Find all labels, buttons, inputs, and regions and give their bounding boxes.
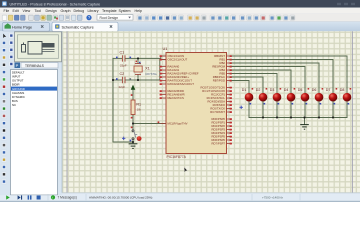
toolbar bbox=[0, 13, 360, 21]
svg-text:TERMINALS: TERMINALS bbox=[25, 64, 45, 68]
sim stop button bbox=[37, 196, 41, 200]
message icon bbox=[51, 195, 55, 199]
menu bar bbox=[0, 8, 360, 14]
svg-text:D3: D3 bbox=[270, 88, 275, 92]
wire RB1 to D7 bbox=[232, 60, 333, 94]
svg-text:D2: D2 bbox=[256, 88, 261, 92]
svg-text:D8: D8 bbox=[340, 88, 345, 92]
svg-text:R1: R1 bbox=[136, 103, 141, 107]
svg-text:Debug: Debug bbox=[74, 9, 85, 13]
ground terminal left bbox=[129, 142, 138, 148]
LED D7 bbox=[326, 88, 338, 105]
wire RB4 to D4 bbox=[232, 70, 291, 93]
wire C2 left lead bbox=[113, 79, 122, 81]
svg-text:System: System bbox=[119, 9, 131, 13]
main background / left panel bbox=[0, 31, 62, 195]
svg-text:Home Page: Home Page bbox=[12, 26, 32, 30]
IC left pin names bbox=[168, 54, 199, 126]
junction node ground left bbox=[132, 141, 134, 143]
IC right pin names bbox=[200, 54, 225, 146]
pin state square button top bbox=[131, 127, 133, 129]
ground terminal right bbox=[300, 125, 309, 130]
wire C1-C2 left vertical down to ground run bbox=[113, 58, 133, 142]
pin state square R1 bottom bbox=[131, 117, 133, 119]
wire C2 node to OSC2 pin bbox=[138, 60, 166, 81]
status bar bbox=[62, 193, 360, 202]
junction node crystal bottom bbox=[137, 79, 139, 81]
svg-text:Template: Template bbox=[102, 9, 117, 13]
LED D1 bbox=[242, 88, 254, 105]
svg-text:C2: C2 bbox=[120, 72, 125, 76]
pin state square button bottom bbox=[130, 140, 132, 142]
svg-text:PIC16F877A: PIC16F877A bbox=[167, 155, 187, 159]
svg-text:NC: NC bbox=[12, 103, 16, 107]
svg-text:D4: D4 bbox=[284, 88, 289, 92]
svg-text:RB7/PGD: RB7/PGD bbox=[213, 79, 225, 83]
LED D6 bbox=[312, 88, 324, 105]
sim step button bbox=[18, 195, 21, 199]
svg-text:File: File bbox=[4, 9, 10, 13]
wire RB5 to D3 bbox=[232, 74, 277, 94]
junction node MCLR branch bbox=[132, 123, 134, 125]
resistor R1 bbox=[131, 100, 142, 115]
wire RB6 to D2 bbox=[232, 77, 263, 93]
svg-text:D1: D1 bbox=[242, 88, 247, 92]
wire C1 node to OSC1 pin bbox=[138, 56, 166, 58]
svg-text:Design: Design bbox=[46, 9, 57, 13]
pin state square MCLR bbox=[158, 121, 160, 123]
wire common cathode rail bbox=[249, 117, 347, 119]
power terminal VCC bbox=[131, 85, 136, 90]
svg-text:X1: X1 bbox=[145, 67, 150, 71]
svg-text:D6: D6 bbox=[312, 88, 317, 92]
IC right pin state squares bbox=[230, 55, 232, 144]
junction node rail D4 bbox=[290, 117, 292, 119]
push button bbox=[132, 130, 142, 141]
svg-text:RD7/PSP7: RD7/PSP7 bbox=[211, 142, 225, 146]
junction node rail D7 bbox=[332, 117, 334, 119]
wire R1 bottom to button top bbox=[132, 115, 134, 131]
mouse cursor bbox=[184, 167, 188, 173]
terminals selector header bbox=[15, 63, 21, 69]
sheet right border bbox=[351, 31, 353, 193]
svg-text:Edit: Edit bbox=[13, 9, 19, 13]
wire cathode D2 bbox=[262, 101, 264, 117]
wire C1 right lead bbox=[125, 57, 138, 59]
capacitor C2 bbox=[116, 72, 131, 89]
svg-text:7 Message(s): 7 Message(s) bbox=[58, 196, 77, 200]
svg-text:U1: U1 bbox=[163, 47, 168, 51]
wire RB3 to D5 bbox=[232, 67, 305, 94]
blue marker near button bbox=[122, 137, 125, 140]
svg-text:View: View bbox=[23, 9, 31, 13]
svg-text:RE2/AN7/CS: RE2/AN7/CS bbox=[168, 96, 184, 100]
wire rail to ground bbox=[304, 118, 306, 125]
wire cathode D7 bbox=[332, 101, 334, 117]
junction node crystal top bbox=[137, 58, 139, 60]
toolbar icons group 2 bbox=[137, 15, 295, 20]
wire power terminal to R1 bbox=[132, 89, 134, 100]
svg-text:Help: Help bbox=[135, 9, 142, 13]
svg-text:22pF: 22pF bbox=[119, 85, 126, 89]
svg-text:MCLR/Vpp/THV: MCLR/Vpp/THV bbox=[168, 122, 188, 126]
wire RB2 to D6 bbox=[232, 63, 319, 93]
wire RB0 to D8 bbox=[232, 56, 347, 93]
IC left pin state squares bbox=[160, 55, 162, 99]
LED D5 bbox=[298, 88, 310, 105]
svg-text:P: P bbox=[16, 63, 19, 68]
svg-text:CRYSTAL: CRYSTAL bbox=[145, 72, 157, 76]
svg-text:UNTITLED - Proteus 8 Professio: UNTITLED - Proteus 8 Professional - Sche… bbox=[10, 3, 101, 7]
svg-text:RC7/RX/DT: RC7/RX/DT bbox=[210, 110, 225, 114]
left mode toolbar icons bbox=[1, 34, 6, 185]
overview window bbox=[15, 32, 62, 62]
tab bar bbox=[0, 21, 360, 31]
capacitor C1 bbox=[116, 51, 131, 68]
LED D4 bbox=[284, 88, 296, 105]
toolbar icons group 1 bbox=[2, 15, 91, 20]
editor area with grid bbox=[62, 31, 360, 193]
IC U1 PIC16F877A bbox=[163, 47, 227, 159]
toolbar combo Root Design bbox=[97, 15, 133, 20]
wire C1 left lead bbox=[113, 57, 122, 59]
sim play button bbox=[6, 195, 10, 199]
svg-text:RA5/AN4/SS/C2OUT: RA5/AN4/SS/C2OUT bbox=[168, 82, 195, 86]
blue marker near D1 bbox=[240, 106, 243, 109]
wire RB7 to D1 bbox=[232, 81, 249, 94]
svg-text:Library: Library bbox=[88, 9, 99, 13]
window buttons bbox=[337, 3, 341, 5]
svg-text:Tool: Tool bbox=[35, 9, 42, 13]
svg-text:C1: C1 bbox=[120, 51, 125, 55]
LED D2 bbox=[256, 88, 268, 105]
junction node C2 left bbox=[112, 79, 114, 81]
LED D3 bbox=[270, 88, 282, 105]
wire cathode D6 bbox=[318, 101, 320, 117]
junction node rail D6 bbox=[318, 117, 320, 119]
schematic tab (active) bbox=[52, 22, 118, 31]
app icon bbox=[2, 1, 7, 6]
svg-text:22pF: 22pF bbox=[120, 64, 127, 68]
wire button bottom to ground node bbox=[132, 140, 134, 142]
svg-text:Graph: Graph bbox=[61, 9, 71, 13]
IC left pin stubs bbox=[161, 56, 167, 124]
svg-text:Schematic Capture: Schematic Capture bbox=[62, 26, 94, 30]
wire cathode D3 bbox=[276, 101, 278, 117]
svg-text:Root Design: Root Design bbox=[100, 16, 119, 20]
junction node rail D3 bbox=[276, 117, 278, 119]
junction node rail D2 bbox=[262, 117, 264, 119]
orientation toolbar icons bbox=[9, 33, 14, 67]
wire crystal top lead bbox=[137, 58, 139, 63]
home tab bbox=[3, 22, 50, 31]
LED D8 bbox=[340, 88, 352, 105]
svg-text:+7500 +1400 th: +7500 +1400 th bbox=[262, 196, 283, 200]
pin state square R1 top bbox=[131, 94, 133, 96]
sheet left border bbox=[66, 31, 68, 193]
svg-text:ANIMATING: 00:00:15.70000 (CPU: ANIMATING: 00:00:15.70000 (CPU load 25%) bbox=[89, 196, 152, 200]
wire cathode D1 bbox=[248, 101, 250, 117]
svg-text:D5: D5 bbox=[298, 88, 303, 92]
title bar bbox=[0, 0, 360, 8]
wire crystal bottom lead bbox=[137, 75, 139, 80]
svg-text:D7: D7 bbox=[326, 88, 331, 92]
wire C2 right lead bbox=[125, 79, 138, 81]
wire cathode D4 bbox=[290, 101, 292, 117]
terminals listbox bbox=[11, 70, 58, 196]
junction node rail ground bbox=[304, 117, 306, 119]
svg-text:OSC2/CLKOUT: OSC2/CLKOUT bbox=[168, 58, 188, 62]
crystal X1 bbox=[134, 61, 158, 76]
svg-text:10k: 10k bbox=[137, 108, 142, 112]
wire MCLR node to pin bbox=[133, 123, 166, 125]
wire cathode D5 bbox=[304, 101, 306, 117]
wire cathode D8 bbox=[346, 101, 348, 117]
IC right pin stubs bbox=[227, 56, 233, 144]
sim pause button bbox=[28, 195, 30, 199]
